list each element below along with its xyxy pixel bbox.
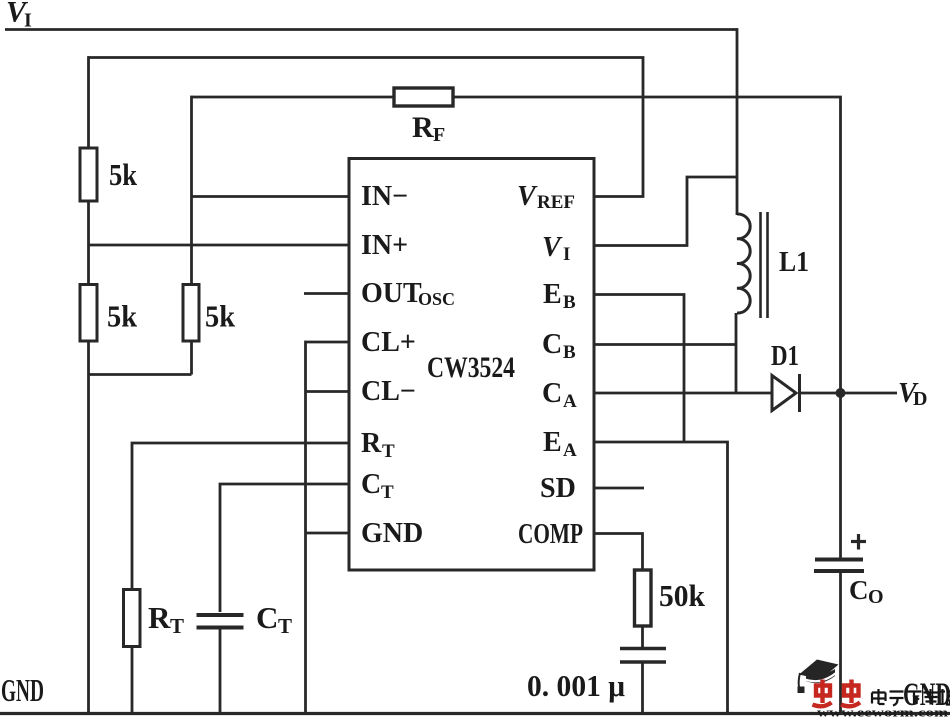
svg-text:SD: SD	[540, 473, 576, 504]
wire SD stub	[594, 487, 645, 490]
wire OUTosc stub	[304, 292, 348, 295]
pin label EB	[543, 279, 576, 313]
svg-text:T: T	[278, 614, 292, 638]
wire VI rail drop to L1	[736, 28, 739, 215]
wire 0.001u cap to rail	[641, 661, 644, 714]
wire VREF rail to 5k divider	[89, 58, 644, 197]
wire CA pin to diode	[594, 392, 773, 395]
capacitor CO	[814, 560, 864, 572]
svg-text:D1: D1	[771, 341, 799, 372]
wire COMP pin	[594, 534, 643, 650]
capacitor 0.001u	[620, 649, 666, 663]
pin label OUTosc	[361, 278, 455, 309]
wire EA pin to rail	[594, 442, 728, 714]
wire CL- pin	[306, 390, 348, 393]
svg-text:OSC: OSC	[418, 289, 455, 309]
svg-text:0. 001 μ: 0. 001 μ	[527, 668, 625, 703]
svg-text:C: C	[256, 600, 278, 635]
wire IN+ pin	[89, 244, 348, 247]
watermark chongchong red characters	[813, 680, 861, 707]
wire left divider vertical	[87, 56, 90, 713]
svg-text:T: T	[381, 482, 394, 503]
wire CO to rail	[839, 573, 842, 714]
svg-text:CL+: CL+	[361, 327, 416, 358]
svg-text:COMP: COMP	[518, 519, 583, 550]
label RT	[148, 600, 184, 638]
svg-text:IN−: IN−	[361, 181, 408, 212]
svg-text:F: F	[433, 124, 445, 146]
svg-text:R: R	[361, 428, 382, 459]
wire RT pin	[132, 443, 348, 714]
svg-text:REF: REF	[537, 192, 575, 213]
label CO	[849, 575, 884, 608]
pin label EA	[543, 427, 577, 461]
wire L1 bottom to CA line	[735, 313, 738, 393]
svg-text:50k: 50k	[659, 578, 706, 613]
svg-text:E: E	[543, 427, 562, 458]
svg-text:OUT: OUT	[361, 278, 422, 309]
pin label VI (pin)	[542, 232, 570, 265]
svg-text:5k: 5k	[107, 299, 138, 334]
wire CB pin	[594, 343, 737, 346]
wire EB pin drop	[594, 295, 685, 443]
svg-text:B: B	[563, 342, 576, 363]
svg-text:E: E	[543, 279, 562, 310]
node VI input rail	[5, 28, 737, 31]
svg-text:O: O	[868, 586, 884, 608]
wire VD node to CO	[839, 393, 842, 558]
svg-text:C: C	[849, 575, 869, 605]
resistor RF	[394, 88, 453, 106]
pin label CA	[542, 378, 577, 412]
svg-text:GND: GND	[1, 672, 44, 708]
svg-text:5k: 5k	[109, 157, 138, 192]
svg-text:www.eeworm.com: www.eeworm.com	[817, 705, 948, 718]
svg-text:R: R	[412, 111, 434, 144]
pin label CB	[542, 329, 576, 363]
svg-text:T: T	[382, 441, 395, 462]
svg-text:I: I	[24, 10, 32, 32]
junction node VD dot	[836, 388, 846, 398]
label CO plus sign	[851, 534, 866, 550]
svg-text:A: A	[563, 391, 577, 412]
resistor RT	[124, 590, 141, 647]
pin label RT	[361, 428, 395, 462]
svg-text:CW3524: CW3524	[427, 351, 515, 384]
resistor 5k (mid, R3)	[183, 285, 199, 342]
node VI label (top-left)	[6, 0, 32, 32]
pin label CT	[361, 469, 394, 503]
IC U1 CW3524 box	[349, 159, 594, 571]
svg-text:5k: 5k	[205, 299, 236, 334]
svg-text:R: R	[148, 600, 171, 635]
wire RF drop through 5k	[190, 96, 193, 375]
watermark graduation cap icon	[798, 660, 839, 694]
label CT	[256, 600, 292, 638]
wire IN- pin	[192, 195, 348, 198]
wire CL+ pin	[306, 341, 348, 344]
label VD	[898, 378, 927, 410]
svg-text:IN+: IN+	[361, 230, 408, 261]
svg-text:I: I	[563, 244, 570, 265]
wire GND pin	[306, 532, 348, 535]
svg-text:L1: L1	[779, 247, 809, 278]
svg-text:CL−: CL−	[361, 376, 416, 407]
svg-text:V: V	[542, 232, 563, 263]
svg-text:B: B	[563, 292, 576, 313]
wire CT pin	[220, 484, 348, 612]
resistor 5k (left lower, R2)	[80, 285, 97, 342]
svg-text:C: C	[542, 329, 562, 360]
pin label VREF	[517, 181, 575, 213]
svg-text:C: C	[542, 378, 562, 409]
svg-text:GND: GND	[361, 518, 423, 549]
wire RF feedback line	[192, 97, 841, 393]
watermark text dianzi xiazaizhan	[872, 689, 950, 706]
wire CT cap to rail	[219, 630, 222, 714]
inductor L1	[737, 212, 768, 318]
capacitor CT	[197, 615, 244, 628]
svg-text:C: C	[361, 469, 381, 500]
resistor 5k (top, R1)	[80, 148, 97, 201]
wire CL/GND vertical to rail	[304, 341, 307, 714]
label RF	[412, 111, 445, 146]
svg-text:T: T	[170, 614, 184, 638]
wire diode output to VD	[800, 392, 898, 395]
svg-text:A: A	[563, 440, 577, 461]
resistor 50k	[635, 570, 652, 626]
wire VI pin to rail	[594, 177, 738, 246]
svg-text:V: V	[517, 181, 538, 212]
wire GND rail	[0, 712, 950, 715]
svg-text:D: D	[913, 388, 927, 410]
diode D1	[772, 374, 800, 412]
wire 5k bottoms link	[89, 373, 192, 376]
